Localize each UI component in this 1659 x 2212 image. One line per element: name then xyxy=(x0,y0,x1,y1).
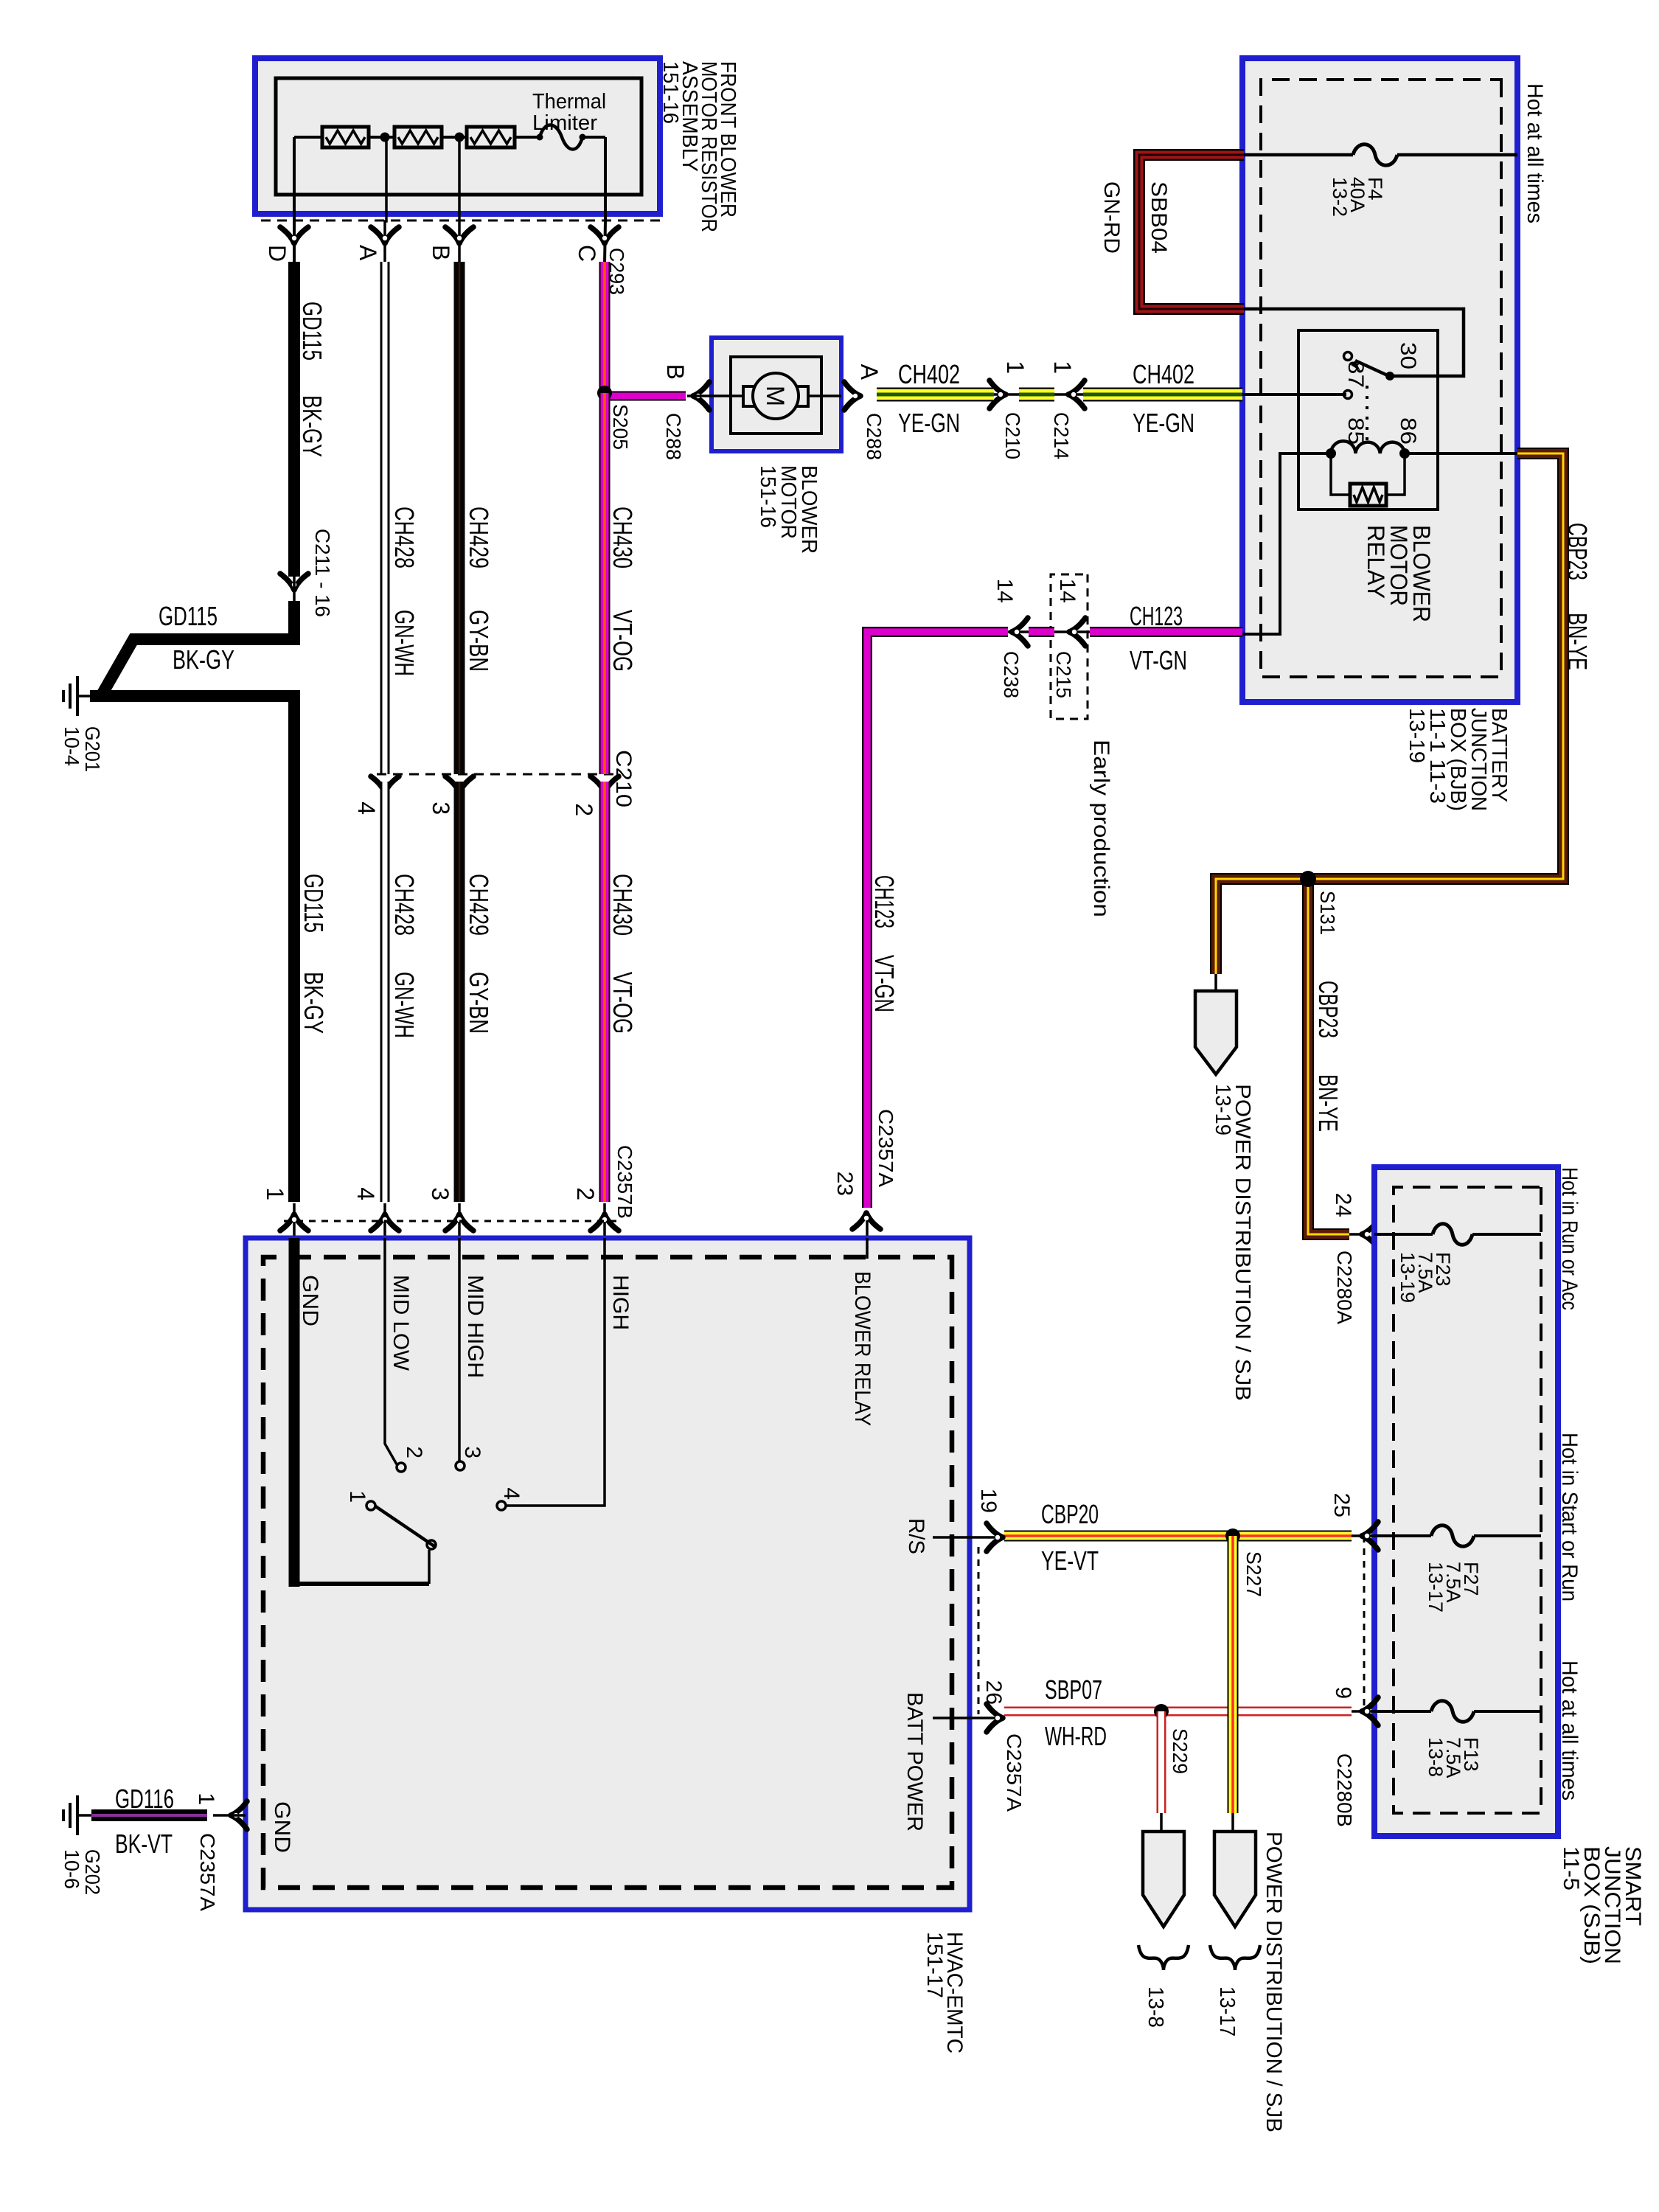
svg-text:1: 1 xyxy=(194,1792,218,1805)
HVAC pin 23 arrow xyxy=(852,1213,880,1229)
svg-text:C2357A: C2357A xyxy=(1003,1733,1026,1812)
resistor R1 xyxy=(322,127,369,147)
HVAC pin 3 arrow xyxy=(445,1214,473,1231)
wire CH428 GN-WH (pin A to C210) xyxy=(380,262,390,774)
svg-text:10-6: 10-6 xyxy=(60,1849,83,1889)
svg-text:CH430: CH430 xyxy=(608,874,638,936)
thermal limiter symbol xyxy=(540,125,582,150)
HVAC pin 2 arrow xyxy=(591,1214,619,1231)
switch contact 2 xyxy=(397,1463,406,1472)
power distribution arrow (S131) xyxy=(1214,974,1217,991)
svg-text:CH402: CH402 xyxy=(898,359,960,389)
svg-text:GY-BN: GY-BN xyxy=(464,972,494,1034)
svg-text:Limiter: Limiter xyxy=(532,111,597,135)
svg-text:13-19: 13-19 xyxy=(1211,1084,1234,1135)
svg-text:C210: C210 xyxy=(611,750,636,807)
wire: relay pin 85 to CH123 xyxy=(1241,453,1331,634)
pin D arrow xyxy=(280,227,308,243)
svg-text:24: 24 xyxy=(1331,1193,1355,1217)
svg-text:VT-OG: VT-OG xyxy=(608,972,638,1034)
svg-text:GD115: GD115 xyxy=(299,874,329,933)
svg-text:VT-GN: VT-GN xyxy=(1130,645,1187,675)
wire stub HVAC pin 1 xyxy=(293,1203,296,1238)
svg-text:C2280A: C2280A xyxy=(1333,1251,1356,1324)
svg-text:GND: GND xyxy=(298,1275,322,1326)
wire SBP07 WH-RD (SJB 9 to HVAC 26) xyxy=(1004,1707,1352,1717)
svg-text:MID LOW: MID LOW xyxy=(389,1275,413,1371)
connector C2357B dashed line xyxy=(283,1220,616,1222)
svg-text:S227: S227 xyxy=(1242,1551,1265,1597)
wire GD115 BK-GY (C211-16 to ground jog) xyxy=(90,601,294,696)
wire GD115 BK-GY (pin D to C211-16) xyxy=(288,262,300,577)
svg-text:19: 19 xyxy=(976,1489,1001,1513)
HVAC inner bold dashed border xyxy=(263,1257,952,1888)
svg-text:C: C xyxy=(574,245,600,262)
svg-text:GN-WH: GN-WH xyxy=(389,972,420,1038)
svg-text:13-17: 13-17 xyxy=(1425,1562,1447,1613)
svg-text:GN-RD: GN-RD xyxy=(1099,181,1124,254)
wire CBP20 branch to power distribution xyxy=(1228,1536,1239,1813)
svg-text:151-16: 151-16 xyxy=(756,465,779,528)
svg-text:CH429: CH429 xyxy=(464,874,494,936)
wire GD116 BK-VT xyxy=(91,1809,207,1821)
wire stub HVAC pin 19 xyxy=(970,1536,1004,1539)
wire stub motor pin B xyxy=(687,394,712,397)
svg-text:3: 3 xyxy=(460,1446,484,1458)
svg-text:VT-GN: VT-GN xyxy=(869,955,900,1012)
HVAC pin 1 arrow xyxy=(280,1214,308,1231)
svg-text:3: 3 xyxy=(427,1187,453,1200)
wire SBP07 branch to power distribution xyxy=(1157,1711,1166,1813)
wire stub HVAC pin 2 xyxy=(603,1203,606,1238)
resistor assembly inner box xyxy=(276,78,641,195)
svg-text:Hot at all times: Hot at all times xyxy=(1557,1660,1582,1801)
svg-text:YE-GN: YE-GN xyxy=(898,408,960,438)
HVAC pin 19 arrow xyxy=(987,1523,1003,1551)
svg-text:C210: C210 xyxy=(1001,412,1024,459)
svg-text:23: 23 xyxy=(832,1172,857,1196)
resistor R2 xyxy=(394,127,442,147)
svg-text:9: 9 xyxy=(1331,1686,1355,1699)
wire: fuse F27 branch xyxy=(1474,1534,1541,1537)
svg-text:10-4: 10-4 xyxy=(60,726,83,766)
svg-text:2: 2 xyxy=(571,803,597,816)
wire stub HVAC pin 26 xyxy=(970,1717,1004,1719)
brace (13-8) xyxy=(1138,1945,1189,1970)
svg-text:GND: GND xyxy=(270,1801,294,1853)
wire GD115 ground riser to HVAC pin 1 xyxy=(90,696,294,1202)
switch contact 4 xyxy=(497,1501,506,1510)
svg-text:2: 2 xyxy=(402,1446,426,1458)
wire CBP20 YE-VT (SJB 25 to HVAC 19) xyxy=(1004,1531,1352,1542)
relay pin 87 contact xyxy=(1344,391,1352,399)
wire stub SJB pin 25 xyxy=(1349,1534,1374,1537)
svg-text:C2357B: C2357B xyxy=(613,1145,636,1219)
svg-text:G202: G202 xyxy=(81,1849,104,1895)
wire CH402 segment between C214 and C210 xyxy=(1019,388,1054,402)
svg-text:SBB04: SBB04 xyxy=(1147,181,1171,254)
connector C215 arrow xyxy=(1069,618,1085,646)
wire: HVAC pin 23 stub xyxy=(866,1238,869,1259)
svg-text:Early production: Early production xyxy=(1089,740,1113,917)
svg-text:BK-VT: BK-VT xyxy=(115,1829,173,1859)
motor symbol M circle xyxy=(753,373,799,419)
svg-text:13-19: 13-19 xyxy=(1397,1252,1419,1303)
svg-text:RELAY: RELAY xyxy=(1363,525,1389,599)
svg-text:86: 86 xyxy=(1396,417,1420,445)
svg-text:1: 1 xyxy=(1049,361,1076,374)
svg-text:Thermal: Thermal xyxy=(532,90,606,114)
svg-text:SBP07: SBP07 xyxy=(1045,1674,1102,1705)
relay coil terminal 86 xyxy=(1399,448,1410,459)
blower motor inner housing xyxy=(731,357,821,434)
ground G202 symbol xyxy=(76,1795,79,1815)
wire CH430 VT-OG (S205 to C210) xyxy=(599,393,611,774)
pin B arrow xyxy=(445,227,473,243)
svg-text:YE-GN: YE-GN xyxy=(1133,408,1194,438)
svg-text:CH123: CH123 xyxy=(869,875,900,928)
svg-text:GD116: GD116 xyxy=(115,1784,174,1814)
relay coil terminal 85 xyxy=(1326,448,1336,459)
wire CH430 VT-OG (pin C to S205) xyxy=(599,262,611,393)
splice S131 xyxy=(1300,871,1316,887)
wire CH123 VT-GN segment (relay 85 out of BJB) xyxy=(1090,627,1242,637)
svg-text:BN-YE: BN-YE xyxy=(1313,1074,1343,1132)
svg-text:1: 1 xyxy=(1002,361,1029,374)
svg-text:BK-GY: BK-GY xyxy=(297,395,327,457)
svg-text:13-8: 13-8 xyxy=(1425,1737,1447,1777)
relay switch arm (30-87) xyxy=(1355,361,1391,377)
wire CH428 GN-WH (C210 to HVAC pin 4) xyxy=(380,782,390,1202)
svg-text:G201: G201 xyxy=(81,726,104,772)
wire stub HVAC pin 3 xyxy=(458,1203,461,1238)
svg-text:BK-GY: BK-GY xyxy=(173,644,234,675)
thin wire through C215/C238 xyxy=(1008,630,1090,633)
svg-text:CH428: CH428 xyxy=(389,874,420,936)
motor brush (top) xyxy=(796,386,808,406)
wire CBP20 branch overlay at crossing xyxy=(1228,1696,1239,1729)
wire: pin C inside assembly xyxy=(604,137,607,221)
svg-text:CH430: CH430 xyxy=(608,507,638,568)
svg-text:3: 3 xyxy=(428,801,454,815)
wire: MID HIGH to contact 3 xyxy=(458,1238,461,1461)
svg-text:C288: C288 xyxy=(662,413,685,460)
fuse F23 7.5A xyxy=(1433,1224,1472,1245)
switch arm xyxy=(372,1504,434,1546)
wire: pin D inside assembly xyxy=(293,137,296,264)
svg-text:1: 1 xyxy=(345,1490,369,1503)
svg-text:C2357A: C2357A xyxy=(874,1109,897,1187)
svg-text:CH429: CH429 xyxy=(464,507,494,568)
connector C211-16 arrow xyxy=(280,574,308,590)
svg-text:CBP20: CBP20 xyxy=(1041,1499,1099,1529)
resistor chain spine xyxy=(582,136,605,139)
SJB pin 24 arrow xyxy=(1362,1220,1378,1248)
svg-text:4: 4 xyxy=(352,1187,379,1200)
SJB pin 9 arrow xyxy=(1362,1697,1378,1725)
HVAC pin 26 arrow xyxy=(987,1704,1003,1732)
svg-text:4: 4 xyxy=(499,1487,524,1500)
wire: pin 19 stub xyxy=(933,1536,970,1539)
switch common contact xyxy=(427,1540,436,1549)
svg-text:CH402: CH402 xyxy=(1133,359,1194,389)
connector C210 line (dashed) xyxy=(376,773,613,776)
svg-text:151-17: 151-17 xyxy=(922,1932,947,1998)
motor pin A arrow xyxy=(844,382,860,410)
svg-text:C211 - 16: C211 - 16 xyxy=(311,529,334,617)
power distribution arrow (S229) xyxy=(1143,1832,1184,1927)
svg-text:26: 26 xyxy=(981,1680,1006,1705)
wire: MID LOW to contact 2 xyxy=(385,1238,397,1464)
connector C210 arrow (CH402) xyxy=(990,380,1006,408)
ground G201 stub xyxy=(77,695,90,698)
connector C293 dashed line xyxy=(255,220,660,222)
svg-text:BATT POWER: BATT POWER xyxy=(902,1692,927,1832)
wire: motor pin B magenta stub to S205 xyxy=(605,392,686,401)
node: tap B junction xyxy=(455,133,465,142)
svg-text:Hot at all times: Hot at all times xyxy=(1523,83,1547,223)
motor pin B arrow xyxy=(693,382,709,410)
switch contact 1 xyxy=(366,1501,375,1510)
svg-text:13-17: 13-17 xyxy=(1215,1986,1239,2037)
wire: fuse F13 branch xyxy=(1474,1710,1541,1713)
svg-text:C238: C238 xyxy=(1000,651,1023,698)
node: tap A junction xyxy=(380,133,390,142)
svg-text:GY-BN: GY-BN xyxy=(464,610,494,672)
C210 pin 4 arrow xyxy=(371,776,399,793)
svg-text:14: 14 xyxy=(1055,579,1079,603)
svg-text:C214: C214 xyxy=(1050,412,1073,459)
svg-text:11-5: 11-5 xyxy=(1559,1846,1583,1891)
svg-text:BK-GY: BK-GY xyxy=(299,972,329,1034)
wire CH429 GY-BN (pin B to C210) xyxy=(454,262,465,774)
splice S205 xyxy=(597,386,612,400)
wire CH123 segment between connectors xyxy=(1029,627,1054,637)
blower motor relay box xyxy=(1298,330,1438,509)
wire CH402 YE-GN segment (relay 87 to C214) xyxy=(1242,393,1346,396)
svg-text:GN-WH: GN-WH xyxy=(389,610,420,676)
svg-text:13-8: 13-8 xyxy=(1144,1986,1167,2028)
svg-text:B: B xyxy=(662,364,689,380)
C210 pin 3 arrow xyxy=(445,776,473,793)
splice S227 xyxy=(1225,1528,1240,1543)
wire: fuse F23 branch xyxy=(1472,1233,1541,1236)
wire SBB04 GN-RD (fuse F4 to relay pin 30) xyxy=(1139,155,1244,309)
wire CBP23 BN-YE (BJB 86 to S131 to SJB 24) xyxy=(1216,453,1563,974)
connector C214 arrow xyxy=(1068,380,1085,408)
SJB inner dashed border xyxy=(1394,1187,1541,1813)
smart junction box (SJB) outline xyxy=(1374,1167,1558,1836)
wire: pin A inside assembly xyxy=(385,137,386,264)
svg-text:GD115: GD115 xyxy=(159,601,218,631)
svg-text:C2280B: C2280B xyxy=(1333,1753,1356,1827)
svg-text:1: 1 xyxy=(262,1187,288,1200)
svg-text:R/S: R/S xyxy=(904,1518,928,1554)
svg-text:D: D xyxy=(264,245,291,262)
svg-text:151-16: 151-16 xyxy=(658,61,682,124)
connector C2357A dashed line (pins 19-26) xyxy=(978,1547,980,1714)
svg-text:VT-OG: VT-OG xyxy=(608,610,638,672)
svg-text:BN-YE: BN-YE xyxy=(1562,613,1593,670)
wire: pin 26 stub xyxy=(933,1717,970,1719)
ground G201 symbol xyxy=(76,676,79,696)
svg-text:S131: S131 xyxy=(1316,891,1339,935)
svg-text:2: 2 xyxy=(572,1187,599,1200)
ground G202 stub xyxy=(77,1814,91,1817)
svg-text:4: 4 xyxy=(353,801,380,815)
wire through motor xyxy=(712,394,841,397)
svg-text:A: A xyxy=(856,364,883,380)
power distribution arrow (S227) xyxy=(1214,1832,1256,1927)
svg-text:C215: C215 xyxy=(1052,651,1075,698)
HVAC pin 4 arrow xyxy=(371,1214,399,1231)
wire CH430 VT-OG (C210 to HVAC pin 2) xyxy=(599,782,611,1202)
wire CH123 VT-GN (C238 to HVAC pin 23) xyxy=(867,632,1008,1208)
wire stub HVAC pin 4 xyxy=(383,1203,386,1238)
connector C238 arrow xyxy=(1012,618,1028,646)
svg-text:WH-RD: WH-RD xyxy=(1045,1721,1107,1751)
svg-text:25: 25 xyxy=(1329,1493,1354,1517)
SJB pin 25 arrow xyxy=(1362,1522,1378,1550)
C210 pin 2 arrow xyxy=(591,776,619,793)
wire: HIGH to contact 4 xyxy=(506,1238,605,1506)
fuse F27 7.5A xyxy=(1431,1526,1474,1547)
svg-text:POWER DISTRIBUTION / SJB: POWER DISTRIBUTION / SJB xyxy=(1262,1832,1286,2132)
pin C arrow xyxy=(591,227,619,243)
svg-text:CH428: CH428 xyxy=(389,507,420,568)
wire stub SJB pin 9 xyxy=(1349,1710,1374,1713)
svg-text:M: M xyxy=(761,386,789,406)
svg-text:C2357A: C2357A xyxy=(196,1833,219,1911)
battery junction box (BJB) outline xyxy=(1242,58,1517,702)
relay coil (85-86) xyxy=(1331,441,1405,453)
pin A arrow xyxy=(371,227,399,243)
splice S229 xyxy=(1154,1704,1169,1719)
wire: F4 feed from Hot at all times xyxy=(1397,153,1517,157)
fuse F4 40A xyxy=(1353,145,1397,166)
relay switch pivot contact xyxy=(1344,352,1352,361)
svg-text:C288: C288 xyxy=(863,413,886,460)
blower motor box xyxy=(712,338,841,451)
front blower motor resistor assembly box xyxy=(255,58,660,214)
svg-text:Hot in Run or Acc: Hot in Run or Acc xyxy=(1557,1167,1582,1310)
wire: relay pin 86 to CBP23 xyxy=(1405,452,1517,455)
svg-text:A: A xyxy=(355,245,381,261)
svg-text:CBP23: CBP23 xyxy=(1313,981,1343,1038)
brace (13-17) xyxy=(1210,1945,1260,1970)
svg-text:CBP23: CBP23 xyxy=(1562,523,1593,580)
wire CBP23 branch to SJB pin 24 xyxy=(1308,879,1349,1234)
relay actuation dotted link xyxy=(1366,386,1368,448)
svg-text:GD115: GD115 xyxy=(297,302,327,361)
relay coil suppression resistor xyxy=(1386,453,1405,495)
wire: HVAC pin 1 GND path xyxy=(289,1238,300,1587)
svg-text:BLOWER RELAY: BLOWER RELAY xyxy=(850,1271,874,1426)
svg-text:14: 14 xyxy=(992,579,1017,603)
svg-text:B: B xyxy=(428,245,454,260)
svg-text:MID HIGH: MID HIGH xyxy=(463,1275,487,1378)
wire CH429 GY-BN (C210 to HVAC pin 3) xyxy=(454,782,465,1202)
BJB inner dashed border xyxy=(1261,80,1501,677)
svg-text:YE-VT: YE-VT xyxy=(1041,1545,1099,1576)
svg-text:HIGH: HIGH xyxy=(608,1275,633,1330)
connector C215 dashed box (early production) xyxy=(1051,574,1088,719)
connector C2280B dashed line (pins 25-9) xyxy=(1363,1536,1366,1711)
svg-text:30: 30 xyxy=(1396,342,1420,369)
svg-text:13-19: 13-19 xyxy=(1405,708,1428,763)
motor brush (bottom) xyxy=(743,386,755,406)
HVAC-EMTC module box xyxy=(246,1238,970,1910)
HVAC GND pin (GD116) arrow xyxy=(231,1801,247,1829)
svg-text:S205: S205 xyxy=(609,404,632,450)
switch contact 3 xyxy=(456,1461,465,1470)
resistor R3 xyxy=(467,127,515,147)
svg-text:S229: S229 xyxy=(1169,1728,1192,1774)
wire: pin B inside assembly xyxy=(458,137,461,264)
fuse F13 7.5A xyxy=(1431,1701,1474,1722)
svg-text:13-2: 13-2 xyxy=(1329,177,1351,217)
svg-text:Hot in Start or Run: Hot in Start or Run xyxy=(1557,1433,1582,1601)
svg-text:CH123: CH123 xyxy=(1130,601,1183,631)
thin wire through C214/C210 connectors xyxy=(994,393,1083,396)
wire CH402 YE-GN segment (C210 to blower motor) xyxy=(877,388,994,402)
wire stub HVAC pin 23 xyxy=(866,1213,869,1238)
wire: relay pin 30 feed from SBB04 xyxy=(1242,309,1464,376)
